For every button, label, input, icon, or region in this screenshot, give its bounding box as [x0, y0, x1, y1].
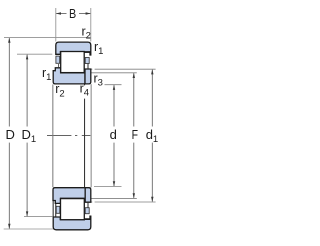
extension line D1 bottom — [24, 216, 52, 218]
bottom section: roller — [61, 199, 85, 220]
dimension line B with arrows — [56, 12, 91, 14]
loose ring guide lip top section — [87, 64, 89, 70]
top section: roller — [61, 52, 84, 73]
svg-text:D: D — [6, 127, 15, 142]
connector line left: inner ring face projection — [52, 85, 54, 188]
connector line right: side face projection — [90, 84, 92, 187]
svg-text:B: B — [69, 6, 76, 21]
extension line d bottom — [94, 186, 122, 188]
bottom section: cage bar right — [85, 208, 89, 214]
top section: cage bar left — [56, 56, 60, 63]
extension line F bottom — [85, 197, 137, 199]
extension line D top — [4, 37, 91, 39]
outer ring right recess edge top section — [84, 51, 90, 53]
extension line D bottom — [4, 228, 53, 230]
extension line B left — [55, 8, 57, 42]
connector line right: flange ring joint projection — [84, 84, 86, 188]
outer ring right recess edge bottom section — [84, 218, 90, 220]
top section: inner ring with left flange — [53, 68, 85, 84]
dimension line D with arrows — [8, 38, 10, 229]
extension line d top — [105, 84, 122, 86]
bottom section: outer ring — [53, 216, 91, 230]
dimension line d1 with arrows — [151, 69, 153, 202]
dimension line F with arrows — [133, 73, 135, 199]
projection line inner ring face bottom section — [52, 201, 54, 217]
extension line d1 bottom — [85, 201, 156, 203]
bottom section: inner ring with left flange — [53, 188, 85, 204]
svg-text:F: F — [132, 127, 138, 142]
dimension line D1 with arrows — [26, 54, 28, 216]
extension line B right — [90, 8, 92, 42]
top section: outer ring — [56, 42, 91, 55]
extension line d1 top — [85, 68, 156, 70]
top section: cage bar right — [85, 58, 89, 64]
loose ring guide lip bottom section — [87, 202, 89, 208]
dimension line d with arrows — [113, 85, 115, 187]
bottom section: loose flange ring — [85, 188, 91, 203]
svg-text:d: d — [110, 127, 117, 142]
inner flange chamfer line top section — [58, 64, 60, 68]
top section: loose flange ring — [85, 69, 91, 84]
projection line flange face bottom section — [55, 204, 57, 217]
extension line F top — [85, 72, 137, 74]
extension line D1 top — [17, 53, 52, 55]
bottom section: cage bar left — [56, 206, 60, 213]
centerline axis — [47, 135, 90, 137]
